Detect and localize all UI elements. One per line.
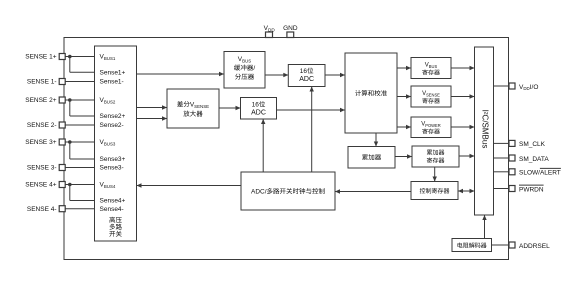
16-bit ADC U-ADC2 (241, 98, 277, 120)
wire decoder to I2C (484, 215, 486, 239)
svg-text:/: / (253, 65, 255, 72)
wire Vpower reg to I2C (451, 126, 475, 128)
pin PWRDN (509, 186, 515, 192)
pin SENSE 1- (59, 79, 65, 85)
svg-text:SLOW/ALERT: SLOW/ALERT (519, 170, 561, 177)
wire to pin SLOW/ALERT (494, 171, 510, 173)
svg-text:BUS: BUS (242, 58, 251, 63)
outer chip boundary (64, 38, 509, 260)
wire SENSE 4- to mux (65, 208, 94, 210)
wire to pin SM_DATA (494, 157, 510, 159)
svg-text:I²C/SMBus: I²C/SMBus (481, 110, 490, 149)
accumulator block U-ACC (348, 147, 395, 169)
svg-text:Sense4+: Sense4+ (100, 198, 126, 205)
wire clock control to ADC1 (311, 87, 313, 173)
svg-text:SENSE: SENSE (426, 92, 440, 97)
svg-text:16: 16 (252, 102, 260, 109)
pin VDD I/O (509, 83, 515, 89)
pin VDD (266, 32, 273, 38)
svg-text:I/O: I/O (530, 84, 539, 91)
svg-text:BUS2: BUS2 (104, 100, 116, 105)
wire SENSE 4+ to mux (65, 184, 94, 186)
wire to pin PWRDN (494, 188, 510, 190)
Vbus register (411, 58, 451, 79)
svg-text:SENSE 4+: SENSE 4+ (25, 182, 56, 189)
wire SENSE 1- to mux (65, 81, 94, 83)
wire SENSE 2- to mux (65, 124, 94, 126)
wire branch to Sense1+ row (69, 57, 71, 73)
high-voltage multiplexer block (95, 46, 137, 241)
wire acc register to control register (434, 167, 436, 182)
pin SENSE 2+ (59, 97, 65, 103)
svg-text:Sense1+: Sense1+ (100, 70, 126, 77)
wire acc register to I2C (459, 155, 475, 157)
svg-text:SENSE 2-: SENSE 2- (27, 122, 57, 129)
pin SENSE 4+ (59, 182, 65, 188)
wire branch to Sense2+ row (69, 100, 71, 116)
svg-text:BUS: BUS (429, 64, 438, 69)
pin SENSE 4- (59, 206, 65, 212)
Vbus buffer/divider block U-BUF (224, 52, 265, 89)
svg-text:PWRDN: PWRDN (519, 186, 544, 193)
Vsense register (411, 86, 451, 107)
pin SLOW/ALERT (509, 169, 515, 175)
svg-text:ADC: ADC (299, 76, 314, 83)
svg-text:BUS3: BUS3 (104, 142, 116, 147)
wire SENSE 2+ to mux (65, 99, 94, 101)
mux caption 高压多路开关 (109, 217, 115, 223)
pin GND (287, 32, 294, 38)
svg-text:SENSE 1-: SENSE 1- (27, 79, 57, 86)
I2C/SMBus interface block U-I2C (475, 47, 494, 215)
junction dot ch3 (68, 140, 72, 144)
accumulator register block (412, 146, 459, 167)
wire calc to Vsense register (397, 96, 411, 98)
wire to pin ADDRSEL (492, 244, 510, 246)
wire calc to Vbus register (397, 67, 411, 69)
wire Vsense reg to I2C (451, 96, 475, 98)
svg-text:SENSE 2+: SENSE 2+ (25, 97, 56, 104)
svg-text:DD: DD (268, 27, 275, 32)
junction dot ch1 (68, 55, 72, 59)
wires mux to Vsense amplifier (137, 107, 168, 109)
svg-text:ADDRSEL: ADDRSEL (519, 243, 550, 250)
wire clock control to mux (137, 185, 242, 187)
pin SENSE 1+ (59, 54, 65, 60)
control register block (411, 182, 458, 200)
wire branch to Sense4+ row (69, 185, 71, 201)
svg-text:Sense2+: Sense2+ (100, 113, 126, 120)
ADC/mux clock and control block U-CLK (241, 172, 335, 210)
svg-text:GND: GND (283, 25, 298, 32)
wire to pin VDD I/O (494, 85, 510, 87)
wire amp to ADC2 (219, 107, 241, 109)
wire buffer to ADC1 (265, 74, 288, 76)
wire accumulator to acc register (395, 156, 412, 158)
wire control register to clock control (335, 191, 411, 193)
svg-text:16: 16 (300, 68, 308, 75)
svg-text:BUS1: BUS1 (104, 56, 116, 61)
pin ADDRSEL (509, 242, 515, 248)
svg-text:SENSE 3-: SENSE 3- (27, 165, 57, 172)
wire SENSE 3+ to mux (65, 141, 94, 143)
svg-text:Sense3+: Sense3+ (100, 156, 126, 163)
differential Vsense amplifier U-AMP (167, 89, 219, 128)
resistor decoder block U-DEC (452, 239, 492, 252)
svg-text:Sense3-: Sense3- (100, 165, 124, 172)
svg-text:Sense4-: Sense4- (100, 206, 124, 213)
svg-text:BUS4: BUS4 (104, 184, 116, 189)
wire mux to Vbus buffer (137, 73, 225, 75)
wire SENSE 1+ to mux (65, 56, 94, 58)
wire calc to accumulator (375, 133, 377, 147)
svg-text:ADC/: ADC/ (251, 189, 267, 196)
junction dot ch4 (68, 183, 72, 187)
bidirectional wire control register to I2C (458, 190, 475, 192)
wire to pin SM_CLK (494, 142, 510, 144)
wire clock control to ADC2 (262, 119, 264, 172)
pin SENSE 3+ (59, 139, 65, 145)
junction dot ch2 (68, 98, 72, 102)
svg-text:SENSE 4-: SENSE 4- (27, 206, 57, 213)
wire ADC1 to calc (325, 74, 345, 76)
wire ADC2 to calc (277, 109, 346, 111)
Vpower register (411, 117, 451, 138)
svg-text:POWER: POWER (425, 123, 440, 128)
wire Vbus reg to I2C (451, 67, 475, 69)
pin SENSE 3- (59, 165, 65, 171)
svg-text:Sense2-: Sense2- (100, 122, 124, 129)
svg-text:ADC: ADC (251, 110, 266, 117)
pin SENSE 2- (59, 122, 65, 128)
wire SENSE 3- to mux (65, 167, 94, 169)
svg-text:SENSE: SENSE (194, 104, 209, 109)
wire branch to Sense3+ row (69, 142, 71, 159)
pin SM_DATA (509, 155, 515, 161)
16-bit ADC U-ADC1 (288, 65, 325, 87)
svg-text:SENSE 3+: SENSE 3+ (25, 139, 56, 146)
svg-text:SM_CLK: SM_CLK (519, 141, 546, 148)
pin SM_CLK (509, 140, 515, 146)
svg-text:SENSE 1+: SENSE 1+ (25, 54, 56, 61)
svg-text:SM_DATA: SM_DATA (519, 156, 549, 163)
svg-text:Sense1-: Sense1- (100, 79, 124, 86)
calculation and calibration block U-CALC (345, 53, 397, 133)
wire calc to Vpower register (397, 126, 411, 128)
